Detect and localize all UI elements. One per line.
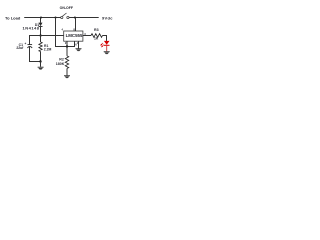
switch S1 <box>61 13 69 19</box>
capacitor C1 <box>27 45 32 48</box>
svg-text:R3: R3 <box>94 28 99 32</box>
svg-text:ON-OFF: ON-OFF <box>60 6 74 10</box>
svg-text:180K: 180K <box>56 62 65 66</box>
wire To Load rail left segment <box>24 17 61 19</box>
node dot on rail at Vcc branch <box>74 16 76 18</box>
svg-text:LMC555: LMC555 <box>66 33 83 38</box>
svg-text:1N4148: 1N4148 <box>22 26 39 31</box>
svg-text:9Vdc: 9Vdc <box>102 16 113 21</box>
svg-text:22uf: 22uf <box>16 46 24 50</box>
svg-text:2.2M: 2.2M <box>44 48 52 52</box>
node dot on rail at trigger branch <box>54 16 56 18</box>
ground symbol G2 below pin 1 <box>76 49 82 51</box>
LED emission arrows <box>101 43 104 47</box>
node dot on rail at diode branch <box>40 16 42 18</box>
plus polarity mark of C1 <box>25 43 27 45</box>
diode D1 <box>39 18 43 36</box>
wire IC pin 3 output <box>83 35 91 37</box>
resistor R2 <box>65 47 68 76</box>
ground symbol G1 <box>38 62 44 70</box>
wire rail right segment to 9Vdc <box>69 17 99 19</box>
node A dot (diode cathode / C1 / R1 / pin7 net) <box>39 34 41 36</box>
wire R3 to LED anode <box>103 36 107 41</box>
wire rail to trigger corner (crosses node A wire) <box>56 18 75 47</box>
wire Vcc drop to IC top pin <box>75 18 77 32</box>
ground symbol G3 below R2 <box>64 76 70 78</box>
LED D2 <box>104 41 110 51</box>
IC U1 LMC555 <box>64 31 83 41</box>
wire node A to C1 top <box>30 36 41 45</box>
wire node A to IC pin 7 <box>41 35 64 37</box>
resistor R1 <box>39 36 42 62</box>
resistor R3 <box>91 34 103 38</box>
wire IC pin 2 stub <box>66 41 68 46</box>
wire C1 bottom to ground node <box>30 47 41 62</box>
node dot pin2/R2 junction <box>66 45 68 47</box>
wire IC pin 1 stub <box>78 41 80 48</box>
ground node dot below R1 <box>39 60 41 62</box>
svg-text:To Load: To Load <box>5 15 21 20</box>
ground symbol G4 below LED <box>104 52 110 54</box>
